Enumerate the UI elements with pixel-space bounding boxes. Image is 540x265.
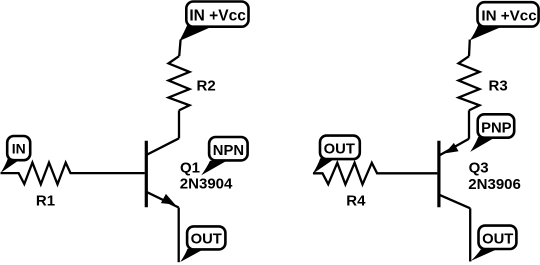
svg-text:OUT: OUT	[482, 232, 513, 248]
svg-text:2N3906: 2N3906	[468, 176, 521, 193]
callout PNP tail	[470, 137, 495, 152]
callout PNP box	[478, 114, 515, 137]
svg-text:IN: IN	[12, 141, 26, 157]
callout NPN tail	[201, 161, 226, 175]
svg-text:R3: R3	[489, 78, 508, 95]
svg-text:IN +Vcc: IN +Vcc	[481, 8, 536, 25]
callout IN (left input) box	[7, 136, 30, 160]
wire: Vcc tail to resistor R2	[179, 40, 180, 57]
svg-text:OUT: OUT	[191, 232, 222, 248]
transistor Q3 emitter arrow	[445, 143, 459, 154]
wire: Vcc tail to resistor R3	[468, 40, 471, 57]
wire + resistor R4 (series zigzag to Q3 base)	[313, 163, 437, 185]
transistor Q3 collector lead	[440, 195, 471, 208]
callout IN +Vcc (right) box	[478, 2, 539, 26]
svg-text:2N3904: 2N3904	[180, 176, 233, 193]
callout OUT (right output) box	[479, 226, 517, 249]
transistor Q1 emitter lead	[147, 192, 179, 207]
svg-text:PNP: PNP	[481, 120, 512, 136]
wire: Q1 emitter to OUT	[178, 208, 180, 263]
resistor R3	[459, 56, 480, 110]
svg-text:NPN: NPN	[213, 143, 244, 159]
callout IN +Vcc (left) box	[186, 2, 248, 27]
wire + resistor R1 (series zigzag from IN to base)	[1, 163, 145, 185]
callout OUT (left output) box	[187, 226, 225, 249]
svg-text:IN +Vcc: IN +Vcc	[189, 8, 246, 25]
callout OUT (right output) tail	[471, 249, 496, 261]
svg-text:R1: R1	[36, 193, 55, 210]
callout IN +Vcc (right) tail	[470, 25, 505, 41]
transistor Q1 base bar	[145, 141, 148, 207]
callout IN (left input) tail	[1, 158, 21, 172]
svg-text:OUT: OUT	[324, 142, 355, 158]
transistor Q1 emitter arrow	[161, 194, 175, 205]
svg-text:R4: R4	[346, 193, 366, 210]
wire: R2 to Q1 collector	[178, 110, 180, 138]
callout OUT (right input) tail	[313, 158, 335, 174]
transistor Q3 emitter lead	[440, 139, 469, 155]
callout NPN box	[209, 137, 248, 160]
callout OUT (right input) box	[320, 136, 360, 160]
wire: Q3 collector to OUT	[469, 208, 471, 261]
transistor Q3 base bar	[437, 141, 440, 207]
resistor R2	[169, 56, 190, 110]
svg-text:Q1: Q1	[180, 160, 200, 177]
svg-text:Q3: Q3	[469, 159, 489, 176]
callout IN +Vcc (left) tail	[179, 25, 214, 41]
wire: R3 to Q3 emitter	[468, 110, 470, 138]
svg-text:R2: R2	[197, 78, 216, 95]
callout OUT (left output) tail	[180, 249, 203, 262]
transistor Q1 collector lead	[147, 138, 179, 154]
